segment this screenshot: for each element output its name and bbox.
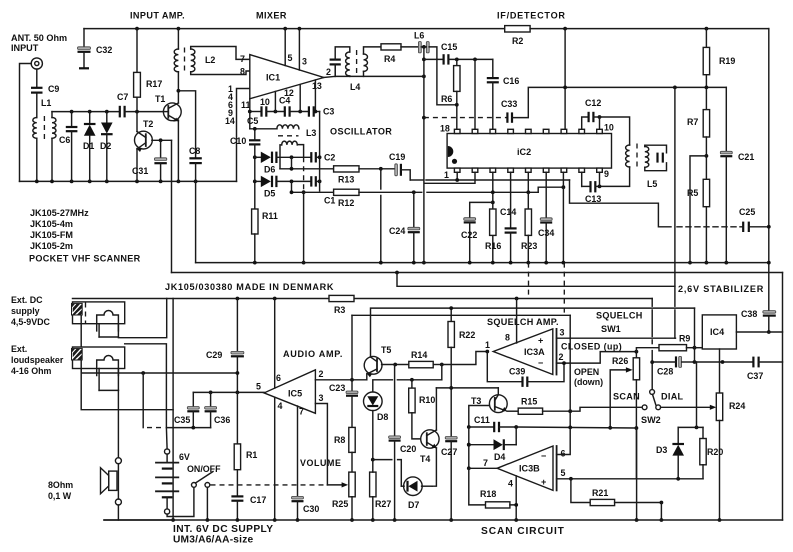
- svg-text:R15: R15: [521, 397, 537, 407]
- svg-text:iC2: iC2: [517, 147, 531, 157]
- svg-text:C39: C39: [509, 367, 525, 377]
- wire L4 secondary top to R4: [364, 47, 382, 54]
- svg-text:R21: R21: [592, 488, 608, 498]
- svg-text:C36: C36: [214, 415, 230, 425]
- wire IC5 pin6 riser: [274, 299, 276, 389]
- svg-text:OSCILLATOR: OSCILLATOR: [330, 127, 392, 137]
- svg-text:D4: D4: [494, 452, 505, 462]
- svg-text:T5: T5: [381, 345, 391, 355]
- svg-text:IC5: IC5: [288, 389, 302, 399]
- svg-text:JK105-4m: JK105-4m: [30, 219, 73, 229]
- resistor R16: [490, 209, 496, 235]
- svg-text:4-16 Ohm: 4-16 Ohm: [11, 366, 52, 376]
- svg-text:MIXER: MIXER: [256, 11, 287, 21]
- svg-text:14: 14: [225, 116, 235, 126]
- diode D2: [105, 110, 109, 114]
- svg-text:C35: C35: [174, 415, 190, 425]
- wire DC jack sleeve path: [81, 315, 237, 373]
- capacitor C9: [31, 87, 43, 89]
- wire right border lower section: [782, 273, 784, 521]
- svg-text:C2: C2: [324, 153, 335, 163]
- resistor R9: [659, 345, 687, 351]
- capacitor C1: [310, 176, 312, 186]
- resistor R18: [486, 502, 510, 508]
- wire D3 R20 top row: [678, 426, 703, 428]
- wire C35 C36 bottoms: [167, 427, 211, 429]
- svg-text:4: 4: [508, 479, 513, 489]
- svg-text:13: 13: [312, 81, 322, 91]
- wire L2 secondary to IC1 pins 7 8: [191, 47, 250, 60]
- capacitor C3: [308, 106, 310, 116]
- wire IC5 pin7 to C30: [297, 406, 299, 496]
- resistor R7: [703, 110, 709, 137]
- svg-text:+: +: [541, 477, 546, 487]
- varicap diode D5: [253, 180, 257, 184]
- svg-text:C32: C32: [96, 45, 112, 55]
- wire antenna down to C9: [36, 69, 38, 87]
- svg-text:R24: R24: [729, 401, 745, 411]
- svg-text:1: 1: [485, 340, 490, 350]
- svg-text:D5: D5: [264, 189, 275, 199]
- svg-text:C23: C23: [329, 383, 345, 393]
- resistor R11: [252, 209, 258, 234]
- svg-text:Ext. DC: Ext. DC: [11, 295, 43, 305]
- svg-text:D8: D8: [377, 412, 388, 422]
- bus main ground bus: [196, 262, 769, 264]
- svg-text:−: −: [541, 451, 546, 461]
- svg-text:SQUELCH AMP.: SQUELCH AMP.: [487, 317, 559, 327]
- svg-text:IC1: IC1: [266, 73, 280, 83]
- wire IC3B pin5 row: [557, 478, 703, 480]
- wire R7 R5 junction left and down: [690, 156, 706, 263]
- wire right border down from rail: [768, 29, 770, 312]
- wire long bus from R12 under IC2: [359, 191, 422, 193]
- svg-text:C22: C22: [461, 230, 477, 240]
- wire top supply rail: [84, 28, 505, 30]
- svg-text:INPUT: INPUT: [11, 43, 39, 53]
- svg-text:R22: R22: [459, 330, 475, 340]
- diode D3: [677, 427, 679, 443]
- capacitor C29: [236, 299, 238, 352]
- svg-text:6V: 6V: [179, 452, 190, 462]
- svg-text:+: +: [538, 336, 543, 346]
- svg-text:18: 18: [440, 124, 450, 134]
- battery 6V: [165, 449, 170, 454]
- transistor T4: [421, 430, 439, 448]
- svg-text:C30: C30: [303, 504, 319, 514]
- svg-text:R18: R18: [480, 489, 496, 499]
- wire antenna to left column: [20, 64, 32, 182]
- svg-text:5: 5: [288, 53, 293, 63]
- bus squelch line: [352, 314, 570, 316]
- wire speaker jack tip to battery node: [125, 344, 167, 428]
- svg-text:5: 5: [256, 382, 261, 392]
- potentiometer R24: [719, 362, 721, 393]
- svg-text:R27: R27: [375, 499, 391, 509]
- svg-text:R11: R11: [262, 211, 278, 221]
- svg-text:T4: T4: [420, 454, 430, 464]
- capacitor C13: [581, 172, 583, 186]
- wire IC1 pin11 column: [249, 99, 251, 129]
- svg-text:C25: C25: [739, 207, 755, 217]
- resistor R14: [409, 361, 433, 367]
- svg-text:T1: T1: [155, 94, 165, 104]
- wire pin17 riser: [474, 59, 476, 129]
- capacitor C27: [445, 437, 457, 440]
- svg-text:INT. 6V DC SUPPLY: INT. 6V DC SUPPLY: [173, 524, 273, 535]
- wire C3 right column: [319, 112, 321, 191]
- diode D7: [404, 477, 423, 496]
- capacitor C17: [231, 495, 243, 497]
- svg-text:JK105/030380 MADE IN DENMARK: JK105/030380 MADE IN DENMARK: [165, 282, 334, 292]
- wire R10 to T4 base: [412, 413, 421, 439]
- svg-text:C31: C31: [132, 166, 148, 176]
- wire IC3A pin3 row: [557, 337, 676, 339]
- capacitor C30: [292, 496, 304, 499]
- svg-text:2: 2: [326, 67, 331, 77]
- svg-text:C12: C12: [585, 98, 601, 108]
- wire C11 node row to R26 column: [516, 427, 636, 428]
- svg-text:SQUELCH: SQUELCH: [596, 311, 643, 321]
- svg-text:C24: C24: [389, 226, 405, 236]
- resistor R6: [456, 59, 458, 65]
- svg-text:ON/OFF: ON/OFF: [187, 464, 221, 474]
- svg-text:C21: C21: [738, 152, 754, 162]
- svg-text:Ext.: Ext.: [11, 344, 27, 354]
- potentiometer R25 wiper: [327, 484, 344, 486]
- wire IC1 pin12 stub: [299, 85, 301, 112]
- op-amp IC3A: [493, 329, 553, 375]
- wire pin7 node down to R18: [469, 468, 486, 505]
- wire IC1 pin2 output: [324, 76, 335, 77]
- capacitor C31: [159, 138, 163, 142]
- wire C11 row drop to pin5 row: [636, 428, 638, 479]
- svg-text:C8: C8: [189, 146, 200, 156]
- wire IC5 pin2 row to T5 emitter: [315, 379, 366, 381]
- svg-text:SW1: SW1: [601, 324, 621, 334]
- wire IC5 pin2 to C23: [350, 378, 354, 382]
- svg-text:C1: C1: [324, 196, 335, 206]
- svg-text:C34: C34: [538, 228, 554, 238]
- svg-text:R6: R6: [441, 94, 452, 104]
- svg-text:R23: R23: [521, 241, 537, 251]
- resistor R27: [370, 472, 376, 497]
- ground rail top-left: [20, 180, 237, 182]
- wire R15 out to SCAN contact: [570, 407, 642, 411]
- dashed linkage switch to volume: [211, 484, 328, 486]
- svg-text:4: 4: [278, 401, 283, 411]
- bus lower section top line: [73, 298, 653, 300]
- resistor R3: [329, 295, 354, 301]
- resistor R12: [334, 189, 359, 195]
- inductor L5: [626, 145, 630, 167]
- wire IC2 bottom pin drops: [456, 172, 458, 180]
- svg-text:R7: R7: [687, 117, 698, 127]
- wire IC3B pin7: [468, 427, 470, 468]
- capacitor C4: [284, 106, 286, 116]
- svg-text:4,5-9VDC: 4,5-9VDC: [11, 317, 51, 327]
- wire speaker jack sleeve: [81, 360, 173, 410]
- svg-text:D2: D2: [100, 141, 111, 151]
- svg-text:C33: C33: [501, 99, 517, 109]
- svg-text:L3: L3: [306, 128, 316, 138]
- inductor L3 top winding: [277, 125, 299, 129]
- IC2: [447, 134, 611, 169]
- svg-text:C7: C7: [117, 92, 128, 102]
- jack ext loudspeaker: [73, 347, 125, 369]
- resistor R19: [705, 29, 707, 48]
- wire D6 node to R13 row: [291, 157, 293, 169]
- wire IC1 pin10 stub: [274, 92, 276, 112]
- svg-text:SCAN: SCAN: [613, 392, 640, 402]
- wire IC1 pin13 stub: [314, 80, 316, 112]
- svg-text:5: 5: [561, 468, 566, 478]
- svg-text:SCAN CIRCUIT: SCAN CIRCUIT: [481, 526, 565, 537]
- svg-text:L6: L6: [414, 31, 424, 41]
- svg-text:8: 8: [240, 67, 245, 77]
- wire bias line B corner: [694, 308, 696, 348]
- capacitor C21: [720, 151, 732, 154]
- svg-text:T3: T3: [471, 396, 481, 406]
- svg-text:8Ohm: 8Ohm: [48, 480, 73, 490]
- wire IC4 bottom stub: [719, 349, 721, 362]
- svg-text:R1: R1: [246, 450, 257, 460]
- svg-text:D6: D6: [264, 165, 275, 175]
- svg-text:L4: L4: [350, 82, 360, 92]
- capacitor C24: [413, 192, 415, 227]
- resistor R21: [571, 479, 590, 503]
- wire R14 to IC3A pin1: [442, 352, 488, 365]
- svg-text:8: 8: [505, 333, 510, 343]
- wire T5 collector to bus: [371, 308, 695, 357]
- svg-text:ANT. 50 Ohm: ANT. 50 Ohm: [11, 33, 67, 43]
- capacitor C28: [675, 356, 677, 367]
- svg-text:AUDIO AMP.: AUDIO AMP.: [283, 349, 343, 359]
- wire D8 node to C20 column: [373, 459, 392, 461]
- svg-text:R2: R2: [512, 36, 523, 46]
- svg-text:7: 7: [299, 407, 304, 417]
- resistor R2: [505, 26, 530, 32]
- IC2 pin stubs top: [454, 129, 460, 133]
- svg-text:IC3B: IC3B: [519, 464, 540, 474]
- svg-text:7: 7: [240, 54, 245, 64]
- diode D8: [364, 392, 383, 411]
- wire IC3B pin6: [557, 427, 571, 454]
- svg-text:JK105-27MHz: JK105-27MHz: [30, 208, 89, 218]
- svg-text:L5: L5: [647, 179, 657, 189]
- antenna connector J1: [31, 58, 42, 69]
- capacitor C20: [394, 365, 396, 436]
- wire IC5 pin4 ground: [274, 398, 276, 521]
- svg-text:SW2: SW2: [641, 415, 661, 425]
- resistor R26 potentiometer: [635, 352, 637, 358]
- wire DC jack tip staircase to bus: [118, 299, 166, 338]
- wire C7 junction down to T2: [136, 112, 138, 132]
- capacitor C34: [540, 218, 552, 221]
- svg-text:supply: supply: [11, 306, 40, 316]
- switch SW2: [650, 390, 655, 395]
- diode D4: [467, 443, 471, 447]
- svg-text:C6: C6: [59, 135, 70, 145]
- svg-text:IC3A: IC3A: [524, 347, 545, 357]
- wire R13 junction column down to bus: [380, 169, 382, 189]
- svg-text:(down): (down): [574, 377, 603, 387]
- node rail junctions: [135, 27, 139, 31]
- wire IC1 pin5 to rail: [284, 29, 286, 66]
- capacitor C35: [192, 392, 194, 406]
- wire L5 bottom to C13 node: [600, 167, 630, 186]
- wire rail up to IC1 ground pins: [237, 89, 250, 182]
- inductor L1: [33, 117, 37, 138]
- svg-text:10: 10: [260, 97, 270, 107]
- svg-text:R8: R8: [334, 435, 345, 445]
- wire IC3A pin2 row with step: [557, 352, 637, 364]
- wire IC4 output row: [736, 331, 782, 333]
- svg-text:OPEN: OPEN: [574, 367, 599, 377]
- wire SW1 column: [651, 299, 653, 307]
- svg-text:7: 7: [483, 458, 488, 468]
- svg-text:DIAL: DIAL: [661, 392, 684, 402]
- svg-text:D3: D3: [656, 445, 667, 455]
- svg-text:R5: R5: [687, 188, 698, 198]
- svg-text:INPUT AMP.: INPUT AMP.: [130, 11, 185, 21]
- wire squelch node down: [694, 348, 696, 362]
- svg-text:R10: R10: [419, 395, 435, 405]
- resistor R17: [136, 29, 138, 73]
- wire IC5 pin3 to volume: [315, 404, 327, 485]
- capacitor C22: [470, 202, 493, 217]
- svg-text:T2: T2: [143, 119, 153, 129]
- inductor L4: [346, 52, 350, 76]
- svg-text:C20: C20: [400, 444, 416, 454]
- wire collector row T3: [436, 387, 498, 389]
- svg-text:R14: R14: [411, 350, 427, 360]
- dashed AGC line with C33: [424, 117, 507, 119]
- svg-text:9: 9: [604, 169, 609, 179]
- svg-text:C10: C10: [230, 136, 246, 146]
- capacitor C32: [83, 29, 85, 47]
- svg-text:POCKET VHF SCANNER: POCKET VHF SCANNER: [29, 254, 141, 264]
- wire L6 out: [429, 47, 457, 105]
- svg-text:VOLUME: VOLUME: [300, 458, 342, 468]
- capacitor C5: [260, 106, 262, 116]
- svg-text:R19: R19: [719, 56, 735, 66]
- varicap diode D6: [253, 155, 257, 159]
- diode D1: [88, 110, 92, 114]
- svg-text:R9: R9: [679, 334, 690, 344]
- resistor R22: [450, 308, 452, 321]
- svg-text:C17: C17: [250, 495, 266, 505]
- capacitor C39 feedback: [487, 352, 522, 382]
- svg-text:3: 3: [302, 57, 307, 67]
- resistor R1: [236, 392, 238, 444]
- wire T3 base: [469, 406, 490, 428]
- svg-text:D7: D7: [408, 500, 419, 510]
- op-amp IC5: [264, 370, 315, 414]
- resistor R15: [507, 410, 518, 412]
- wire detector zigzag to C25: [570, 180, 672, 227]
- speaker LS1: [115, 458, 121, 464]
- resistor R5: [703, 179, 709, 206]
- svg-text:R3: R3: [334, 305, 345, 315]
- capacitor C2: [310, 152, 312, 162]
- op-amp IC3B: [497, 446, 553, 490]
- svg-text:D1: D1: [83, 141, 94, 151]
- wire L4 bottom return: [335, 64, 424, 76]
- svg-text:IF/DETECTOR: IF/DETECTOR: [497, 11, 566, 21]
- wire squelch feed line: [397, 273, 675, 287]
- svg-text:C38: C38: [741, 309, 757, 319]
- svg-text:IC4: IC4: [710, 327, 725, 337]
- svg-text:C3: C3: [323, 107, 334, 117]
- wire oscillator injection column: [423, 47, 425, 263]
- inductor L3 bottom winding: [282, 141, 298, 145]
- svg-text:loudspeaker: loudspeaker: [11, 355, 64, 365]
- wire T1 collector to L2: [177, 72, 179, 103]
- wire oscillator loop left: [250, 128, 277, 130]
- svg-text:C5: C5: [247, 116, 258, 126]
- svg-text:3: 3: [560, 328, 565, 338]
- svg-text:C19: C19: [389, 152, 405, 162]
- capacitor C6: [70, 110, 74, 114]
- svg-text:3: 3: [319, 393, 324, 403]
- bus bottom rail: [104, 519, 783, 521]
- resistor R13: [334, 166, 359, 172]
- capacitor C16: [492, 59, 494, 77]
- svg-text:1: 1: [444, 170, 449, 180]
- capacitor C36: [209, 391, 213, 395]
- svg-text:C14: C14: [500, 207, 516, 217]
- svg-text:R20: R20: [707, 447, 723, 457]
- svg-text:JK105-FM: JK105-FM: [30, 230, 73, 240]
- resistor R8: [349, 427, 355, 452]
- svg-text:JK105-2m: JK105-2m: [30, 241, 73, 251]
- svg-text:C15: C15: [441, 42, 457, 52]
- jack ext DC supply: [73, 302, 125, 324]
- svg-text:0,1 W: 0,1 W: [48, 491, 72, 501]
- svg-text:11: 11: [241, 100, 250, 110]
- wire DIAL contact to R24 wiper: [661, 406, 713, 408]
- IC4: [702, 315, 736, 349]
- svg-text:10: 10: [604, 123, 614, 133]
- svg-text:R26: R26: [612, 356, 628, 366]
- svg-text:UM3/A6/AA-size: UM3/A6/AA-size: [173, 535, 253, 546]
- wire R26 wiper arrow: [610, 370, 628, 428]
- wire IC3A pin8 riser: [516, 299, 518, 344]
- wire squelch output row with C37: [695, 361, 754, 363]
- wire rail drop to IC2 pin16: [564, 29, 566, 130]
- svg-text:R17: R17: [146, 79, 162, 89]
- svg-text:R25: R25: [332, 499, 348, 509]
- IC2 pin stubs bottom: [454, 168, 460, 172]
- capacitor across L4 primary: [334, 65, 336, 77]
- wire R9 node to IC4: [695, 347, 703, 349]
- wire T2 base node down through rail to lower bus: [171, 140, 173, 272]
- dashed link top to squelch bus: [563, 263, 565, 316]
- resistor R20: [702, 427, 704, 438]
- wire oscillator cap row: [250, 111, 261, 113]
- resistor R4: [381, 44, 401, 50]
- svg-text:C11: C11: [474, 415, 490, 425]
- wire input row: [52, 111, 120, 113]
- svg-text:C29: C29: [206, 350, 222, 360]
- wire R26 node to R9: [636, 348, 659, 352]
- wire R19 tap to C21: [725, 87, 727, 151]
- wire D8 R10 top row: [373, 380, 393, 392]
- wire squelch line drop to R15: [569, 315, 571, 411]
- svg-text:R16: R16: [485, 241, 501, 251]
- wire D5 node to R12 row: [291, 181, 293, 192]
